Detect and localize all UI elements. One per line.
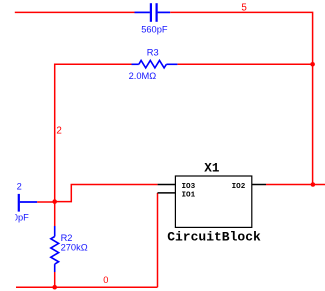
wire [312,64,314,184]
capacitor C2 (left, clipped by frame) [19,194,37,212]
wire [16,286,158,288]
wire [55,185,158,202]
svg-text:X1: X1 [204,162,220,176]
wire [37,201,55,203]
svg-text:2: 2 [56,125,61,136]
subcircuit X1 box [175,176,251,227]
svg-text:560pF: 560pF [141,25,168,35]
wire [54,202,56,226]
svg-text:2: 2 [17,181,22,191]
capacitor C1 [135,3,171,22]
resistor R3 [132,60,178,68]
wire [55,64,132,201]
pin IO1 [158,192,176,194]
svg-text:0: 0 [103,275,108,285]
pin IO3 [158,184,176,186]
junction [52,285,57,290]
pin IO2 [252,184,266,186]
svg-text:270kΩ: 270kΩ [61,242,88,252]
svg-text:5: 5 [241,2,247,13]
svg-text:R3: R3 [147,47,159,57]
svg-text:IO2: IO2 [232,183,246,191]
wire [157,193,159,287]
wire [170,12,312,64]
junction [310,62,315,67]
wire [15,11,135,13]
wire [266,184,325,186]
svg-text:IO1: IO1 [182,191,196,199]
svg-text:0pF: 0pF [13,213,29,223]
wire [54,272,56,287]
junction [311,182,316,187]
svg-text:2.0MΩ: 2.0MΩ [129,71,157,81]
svg-text:CircuitBlock: CircuitBlock [167,230,261,245]
resistor R2 [51,226,59,272]
svg-text:IO3: IO3 [182,183,196,191]
wire [177,63,312,65]
junction [52,199,57,204]
